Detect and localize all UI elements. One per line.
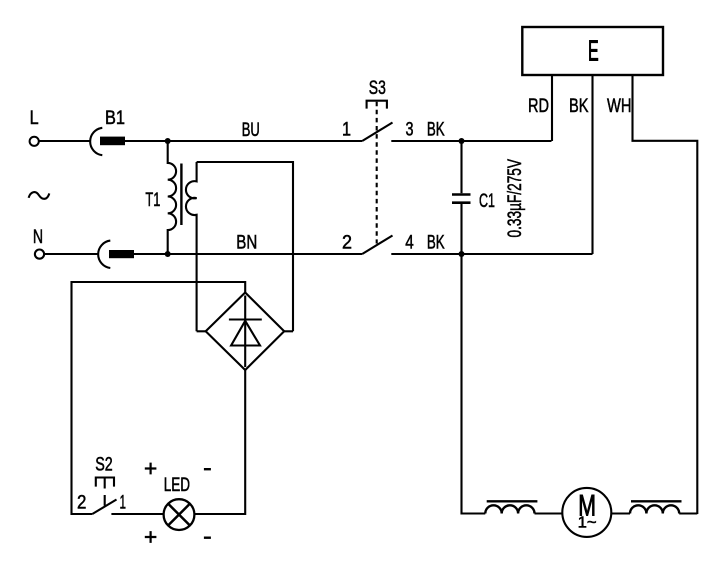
interference suppressor B1 core — [100, 137, 125, 146]
svg-text:T1: T1 — [145, 189, 160, 211]
node junction on N line — [165, 251, 171, 257]
capacitor C1 plates — [452, 195, 471, 203]
wire contact 4 to BK — [391, 253, 592, 255]
transformer T1 core — [180, 164, 182, 226]
wire N terminal to bead — [44, 253, 98, 255]
svg-text:BU: BU — [242, 119, 260, 141]
interference suppressor arc on N — [98, 241, 110, 268]
interference suppressor B1 arc — [90, 128, 102, 155]
choke coil right — [630, 505, 679, 513]
wire motor loop left — [462, 254, 486, 514]
svg-text:BK: BK — [569, 95, 589, 117]
terminal N — [35, 250, 44, 259]
svg-text:4: 4 — [405, 232, 414, 254]
transformer T1 secondary winding — [186, 162, 197, 331]
bridge rectifier V1 diamond — [206, 293, 285, 371]
svg-text:BK: BK — [427, 119, 445, 141]
wire RD — [551, 75, 553, 141]
wire contact 3 to junction — [391, 140, 551, 142]
minus sign top — [204, 468, 211, 470]
svg-text:N: N — [33, 226, 43, 248]
svg-text:S2: S2 — [95, 454, 113, 476]
wire secondary top loop — [197, 162, 293, 331]
svg-text:L: L — [30, 107, 39, 129]
wire choke right to right loop — [679, 512, 697, 514]
S3 mechanical link dashed — [376, 102, 378, 244]
svg-text:0.33µF/275V: 0.33µF/275V — [504, 159, 526, 238]
svg-text:3: 3 — [406, 119, 414, 141]
bridge diode cathode bar — [229, 318, 262, 320]
choke core bar right — [631, 500, 682, 502]
node junction on L line — [165, 138, 171, 144]
wire secondary to bridge left vertex — [197, 330, 206, 332]
svg-text:LED: LED — [164, 474, 190, 496]
svg-text:E: E — [588, 36, 599, 68]
AC source tilde — [29, 192, 50, 199]
wire LED to bridge bottom vertex — [194, 370, 245, 514]
S2 actuator bracket — [96, 478, 114, 487]
S2 mechanical link dashes — [104, 478, 106, 506]
interference suppressor core on N — [109, 250, 134, 258]
node junction top at capacitor — [459, 138, 465, 144]
svg-text:2: 2 — [77, 491, 86, 513]
svg-text:BK: BK — [427, 232, 445, 254]
svg-text:RD: RD — [528, 95, 549, 117]
wire S2 to LED — [111, 513, 163, 515]
switch S2 blade — [92, 500, 116, 515]
svg-text:WH: WH — [607, 95, 632, 117]
svg-text:B1: B1 — [105, 107, 125, 129]
bridge diode axis — [244, 296, 246, 368]
wire WH — [633, 75, 698, 514]
wire motor to choke right — [611, 512, 630, 514]
switch S3 blade 2-4 — [362, 236, 392, 255]
svg-text:1~: 1~ — [578, 515, 597, 532]
node junction bottom at capacitor — [459, 251, 465, 257]
svg-text:1: 1 — [342, 119, 351, 141]
LED lamp circle — [164, 499, 195, 530]
S3 actuator bracket — [367, 101, 387, 109]
svg-text:S3: S3 — [369, 77, 386, 99]
LED lamp cross — [168, 504, 189, 525]
wire BK — [591, 75, 593, 254]
wire choke to motor — [535, 512, 563, 514]
svg-text:C1: C1 — [479, 190, 495, 212]
wire secondary loop to bridge right vertex — [284, 330, 293, 332]
plus sign bottom — [145, 531, 157, 543]
transformer T1 primary winding — [168, 141, 176, 254]
motor M circle — [562, 488, 611, 537]
choke core bar left — [487, 500, 538, 502]
wire BN : bead to S3 contact 2 — [134, 253, 362, 255]
minus sign bottom — [204, 537, 211, 539]
choke coil left — [485, 505, 534, 513]
capacitor C1 lead bottom — [460, 204, 462, 254]
switch S3 blade 1-3 — [362, 123, 392, 142]
terminal L — [30, 137, 39, 146]
bridge diode triangle — [231, 321, 260, 346]
plus sign top — [145, 463, 157, 475]
box E — [522, 27, 663, 75]
wire L terminal to bead B1 — [39, 140, 91, 142]
capacitor C1 lead top — [460, 141, 462, 193]
wire BU : bead to S3 contact 1 — [125, 140, 362, 142]
wire DC plus loop — [72, 282, 246, 514]
svg-text:2: 2 — [342, 232, 352, 254]
svg-text:1: 1 — [120, 491, 127, 513]
svg-text:BN: BN — [236, 232, 257, 254]
